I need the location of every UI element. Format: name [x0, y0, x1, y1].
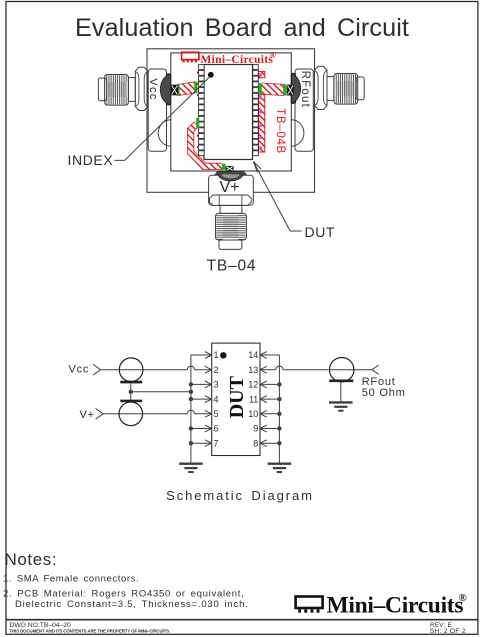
svg-text:RFout: RFout: [299, 71, 311, 108]
svg-text:INDEX: INDEX: [68, 152, 114, 168]
svg-text:8: 8: [253, 438, 258, 448]
svg-text:®: ®: [459, 592, 467, 604]
svg-text:TB–04: TB–04: [207, 257, 257, 274]
svg-text:Vcc: Vcc: [69, 364, 90, 376]
svg-text:9: 9: [253, 424, 258, 434]
svg-text:50 Ohm: 50 Ohm: [362, 387, 406, 399]
svg-text:Mini–Circuits: Mini–Circuits: [201, 54, 274, 66]
svg-text:Evaluation Board and Circuit: Evaluation Board and Circuit: [75, 14, 409, 42]
svg-text:DUT: DUT: [305, 224, 336, 240]
svg-text:SH: 2 OF 2: SH: 2 OF 2: [430, 628, 466, 635]
svg-text:Schematic Diagram: Schematic Diagram: [166, 488, 314, 503]
svg-text:V+: V+: [80, 409, 95, 421]
svg-text:11: 11: [249, 394, 258, 404]
svg-text:1. SMA Female connectors.: 1. SMA Female connectors.: [3, 573, 139, 584]
svg-text:THIS DOCUMENT AND ITS CONTENTS: THIS DOCUMENT AND ITS CONTENTS ARE THE P…: [10, 628, 171, 633]
svg-text:®: ®: [270, 50, 277, 60]
svg-text:5: 5: [214, 409, 219, 419]
svg-text:V+: V+: [219, 179, 239, 196]
svg-text:3: 3: [214, 380, 219, 390]
svg-text:14: 14: [248, 350, 258, 360]
svg-text:1: 1: [214, 350, 219, 360]
svg-text:7: 7: [214, 438, 219, 448]
svg-text:2: 2: [214, 365, 219, 375]
svg-text:12: 12: [248, 380, 258, 390]
svg-text:6: 6: [214, 424, 219, 434]
svg-text:13: 13: [248, 365, 258, 375]
svg-text:4: 4: [214, 394, 219, 404]
svg-text:Vcc: Vcc: [147, 78, 159, 101]
svg-text:Mini–Circuits: Mini–Circuits: [327, 593, 464, 619]
svg-text:10: 10: [248, 409, 258, 419]
svg-text:Notes:: Notes:: [5, 550, 58, 569]
svg-text:2. PCB Material: Rogers RO4350: 2. PCB Material: Rogers RO4350 or equiva…: [3, 588, 245, 599]
svg-text:Dielectric Constant=3.5, Thick: Dielectric Constant=3.5, Thickness=.030 …: [15, 599, 249, 610]
svg-text:DUT: DUT: [226, 375, 248, 418]
svg-text:TB–04B: TB–04B: [274, 108, 286, 154]
